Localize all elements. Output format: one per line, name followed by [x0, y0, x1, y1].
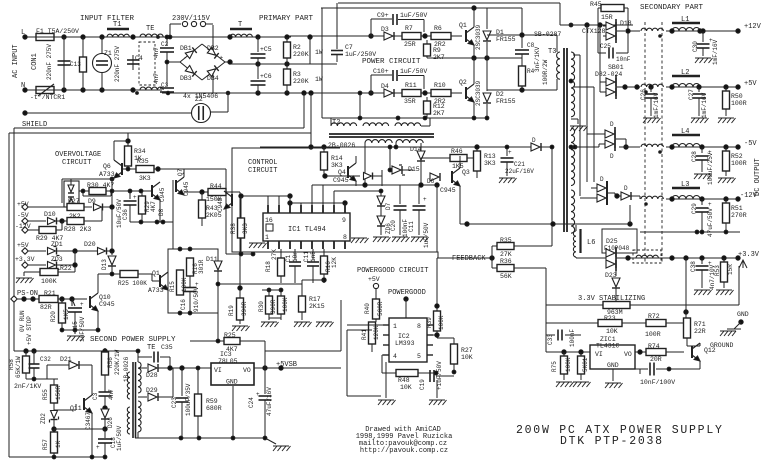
- terminal +5V b: [22, 248, 28, 254]
- svg-text:C10+: C10+: [373, 68, 389, 75]
- wire pg pin1: [347, 324, 383, 326]
- svg-text:R27: R27: [461, 347, 473, 354]
- diode DB4: [202, 62, 225, 80]
- svg-text:D23: D23: [605, 272, 617, 279]
- label C28 plus: [708, 149, 712, 156]
- svg-text:GND: GND: [737, 311, 749, 318]
- regulator IC3 box: [211, 363, 254, 385]
- ground T3: [570, 119, 588, 131]
- svg-text:1mF/16V: 1mF/16V: [712, 39, 719, 65]
- label C13: [70, 61, 81, 68]
- resistor R10: [431, 90, 451, 97]
- text CONTROL: [248, 159, 277, 167]
- wire pg out: [405, 299, 407, 318]
- resistor R16c: [321, 249, 328, 283]
- diode D29: [138, 393, 173, 401]
- wire power top outer: [338, 2, 560, 4]
- label Q3 type: [440, 187, 456, 194]
- junction y191: [379, 189, 383, 193]
- label Z1 values: [114, 46, 121, 82]
- svg-text:4n7: 4n7: [108, 389, 115, 400]
- label R10 value: [434, 98, 446, 105]
- label Q10 type: [99, 301, 115, 308]
- svg-text:C1: C1: [285, 254, 292, 262]
- label 1B-0026: [123, 356, 130, 382]
- junction CTX: [585, 23, 602, 27]
- svg-text:1mF/16V: 1mF/16V: [701, 92, 708, 118]
- label R27: [68, 198, 80, 205]
- text FEEDBACK: [452, 255, 486, 263]
- wire ps-on row: [17, 298, 39, 300]
- label R29 4K7: [36, 235, 63, 242]
- transistor Q1b: [160, 264, 168, 299]
- svg-text:R15: R15: [169, 281, 176, 292]
- svg-text:R25 100K: R25 100K: [118, 280, 147, 287]
- transistor Q10: [90, 285, 98, 330]
- label C27 value: [701, 92, 708, 118]
- junction c20 top: [388, 145, 392, 149]
- svg-text:25R: 25R: [404, 41, 416, 48]
- label R72: [648, 313, 660, 320]
- ground C11: [411, 237, 429, 242]
- wire tap down: [598, 144, 600, 147]
- svg-text:ZD2: ZD2: [40, 413, 47, 424]
- label Q3: [462, 169, 470, 176]
- svg-text:C16: C16: [180, 299, 187, 310]
- label DB2: [207, 45, 219, 52]
- ground R52: [718, 178, 736, 183]
- wire R35 up: [551, 147, 553, 246]
- svg-text:ZD3: ZD3: [51, 256, 63, 263]
- IC U1 TL494 box: [263, 213, 350, 241]
- resistor R74: [646, 349, 684, 356]
- resistor R22: [24, 269, 75, 276]
- svg-text:C23: C23: [171, 397, 178, 408]
- winding +3.3V: [636, 255, 658, 258]
- resistor R41: [369, 322, 377, 352]
- terminal +5V pg: [373, 283, 378, 288]
- junction fb down: [435, 304, 439, 308]
- junction row2 bottom: [396, 116, 489, 120]
- wire ic bottom: [226, 253, 253, 255]
- diode D9: [84, 204, 112, 211]
- label R41: [361, 329, 368, 340]
- svg-text:Z2: Z2: [195, 96, 203, 103]
- junction R72 out: [684, 310, 688, 325]
- wire bus stub1: [573, 54, 580, 56]
- label D25: [606, 238, 618, 245]
- wire CTX row: [560, 24, 633, 26]
- svg-text:T1: T1: [113, 21, 121, 29]
- svg-text:INPUT FILTER: INPUT FILTER: [80, 15, 135, 23]
- wire shield rail: [25, 112, 192, 114]
- wire R71 v: [685, 258, 687, 318]
- svg-text:100R/2W: 100R/2W: [542, 59, 549, 85]
- text 0V RUN: [19, 310, 26, 332]
- svg-text:C2: C2: [161, 41, 169, 48]
- wire link2 v: [303, 93, 305, 128]
- resistor R15: [177, 270, 184, 295]
- svg-text:22R: 22R: [694, 328, 706, 335]
- label R23 value: [606, 328, 618, 335]
- svg-text:R18: R18: [265, 261, 272, 272]
- capacitor C32: [29, 351, 40, 379]
- label R45 value: [601, 14, 613, 21]
- svg-text:D3: D3: [381, 26, 389, 33]
- label R23: [604, 315, 616, 322]
- pin VI: [595, 351, 603, 358]
- label LM393: [395, 340, 415, 347]
- svg-text:2SC3039: 2SC3039: [475, 80, 482, 106]
- wire q7 up: [183, 169, 185, 177]
- resistor R28: [62, 218, 102, 225]
- svg-text:R57: R57: [42, 439, 49, 450]
- text -12V: [740, 192, 758, 200]
- svg-text:R71: R71: [694, 321, 706, 328]
- label R16b value: [198, 259, 205, 274]
- transistor Q7: [176, 177, 184, 195]
- svg-text:C19: C19: [419, 379, 426, 390]
- label R6: [434, 25, 442, 32]
- resistor R16b: [187, 258, 194, 276]
- resistor R55: [51, 379, 58, 410]
- wire -12V link: [639, 196, 641, 199]
- svg-text:100K: 100K: [41, 278, 57, 285]
- svg-text:10K: 10K: [400, 384, 412, 391]
- junction d11 out: [216, 282, 220, 286]
- svg-text:20R: 20R: [650, 356, 662, 363]
- svg-text:R44: R44: [210, 183, 222, 190]
- label ZD4: [385, 223, 392, 234]
- capacitor C38: [696, 258, 709, 288]
- svg-text:L6: L6: [587, 239, 595, 247]
- label Q2 type: [475, 80, 482, 106]
- svg-text:+5VSB: +5VSB: [276, 361, 297, 369]
- junction sps rail: [179, 436, 267, 440]
- junction q6 emit: [110, 177, 114, 181]
- svg-text:10uF/50V: 10uF/50V: [116, 199, 123, 228]
- svg-text:D26: D26: [107, 417, 114, 428]
- wire bus stub2: [587, 133, 599, 135]
- label D -12V: [600, 176, 604, 183]
- wire r31 bot: [269, 317, 281, 319]
- wire y224: [460, 223, 630, 225]
- label C20: [390, 220, 397, 231]
- text GND: [737, 311, 749, 318]
- wire q11 base: [54, 409, 76, 411]
- svg-text:GND: GND: [226, 379, 238, 386]
- svg-text:12K: 12K: [331, 257, 338, 268]
- wire q11 base2: [75, 404, 77, 410]
- wire ic3 gnd: [232, 386, 234, 438]
- label D18: [620, 20, 632, 27]
- transistor Q4: [348, 156, 356, 186]
- label C36 plus: [133, 194, 137, 201]
- wire r58 bottom: [26, 378, 58, 380]
- wire D to R35up: [541, 146, 552, 148]
- label R52 value: [731, 160, 747, 167]
- svg-text:390R: 390R: [241, 301, 248, 316]
- svg-text:100uF/35V: 100uF/35V: [185, 383, 192, 416]
- label Q8 type: [217, 197, 224, 212]
- svg-text:C27: C27: [688, 89, 695, 100]
- svg-text:GROUND: GROUND: [710, 342, 734, 349]
- svg-text:R75: R75: [551, 361, 558, 372]
- svg-text:16: 16: [265, 217, 273, 224]
- label R55: [42, 389, 49, 400]
- regulator ZIC1: [590, 345, 635, 369]
- label R2 watt: [315, 49, 323, 56]
- svg-text:AC INPUT: AC INPUT: [12, 44, 20, 78]
- junction T3 taps: [569, 23, 577, 149]
- transformer T3 core: [564, 48, 567, 232]
- IC1 pin risers: [268, 185, 345, 205]
- label R11 value: [404, 98, 416, 105]
- label C21 value: [505, 168, 534, 175]
- wire T2 prim right: [429, 118, 431, 126]
- label R9 value: [433, 54, 445, 61]
- label R38: [230, 223, 237, 234]
- junction vi: [196, 366, 200, 370]
- label C24: [248, 397, 255, 408]
- svg-text:POWERGOOD: POWERGOOD: [388, 289, 426, 297]
- resistor R25b: [190, 313, 341, 368]
- label R27b value: [461, 354, 473, 361]
- label C33: [547, 334, 554, 345]
- wire vo out: [254, 367, 341, 369]
- label R35b value: [139, 175, 151, 182]
- svg-text:910/50V: 910/50V: [193, 286, 200, 312]
- junction cap out: [667, 367, 671, 371]
- junction sps top: [24, 349, 107, 353]
- diode D7: [377, 191, 385, 216]
- svg-text:SB01: SB01: [608, 64, 624, 71]
- wire below ic: [302, 279, 324, 281]
- capacitor C21: [501, 147, 514, 176]
- svg-text:R27: R27: [68, 198, 80, 205]
- svg-text:C11: C11: [303, 251, 310, 262]
- ground C30: [695, 58, 713, 63]
- label TE: [146, 25, 154, 33]
- junction 5vsb rail: [168, 366, 184, 370]
- bridge node left: [167, 61, 180, 63]
- svg-text:22uF/16V: 22uF/16V: [505, 168, 534, 175]
- text 3.3V STABILIZING: [578, 295, 645, 303]
- resistor R43: [199, 192, 206, 226]
- label ZD3: [51, 256, 63, 263]
- text INPUT FILTER: [80, 15, 135, 23]
- wire long top2: [9, 132, 311, 134]
- wire pg v: [375, 289, 377, 299]
- junctions filter bottom: [62, 88, 135, 92]
- wire row1 feed: [287, 35, 383, 37]
- wire left border2: [13, 128, 15, 351]
- wire stab left v: [545, 268, 547, 352]
- svg-text:Z1: Z1: [104, 50, 112, 57]
- svg-text:1uF/250V: 1uF/250V: [345, 51, 376, 58]
- svg-text:R13: R13: [484, 153, 496, 160]
- label D1 type: [496, 36, 516, 43]
- label D16: [532, 137, 536, 144]
- svg-text:D82-024: D82-024: [595, 71, 622, 78]
- svg-text:1mF/16V: 1mF/16V: [653, 92, 660, 118]
- svg-text:78L05: 78L05: [218, 358, 238, 365]
- svg-text:+: +: [219, 55, 223, 63]
- label R29b: [144, 201, 151, 212]
- svg-text:65K/1W: 65K/1W: [15, 356, 22, 378]
- wire Q6 base: [111, 178, 113, 190]
- terminal -5V a: [22, 218, 28, 224]
- transistor Q11: [84, 395, 92, 457]
- wire T2 prim left: [330, 118, 332, 126]
- text title line1: [516, 424, 724, 437]
- resistor R20: [59, 299, 66, 330]
- svg-text:-5V: -5V: [744, 140, 757, 148]
- transistor Q1: [466, 8, 474, 58]
- svg-text:R6: R6: [434, 25, 442, 32]
- junction c17: [103, 406, 107, 410]
- resistor R53: [721, 258, 728, 288]
- label Q6: [103, 163, 111, 170]
- label D -5V bot: [610, 153, 614, 160]
- junction R7/R6: [423, 34, 427, 38]
- svg-text:C21: C21: [514, 161, 525, 168]
- svg-text:D6: D6: [427, 178, 435, 185]
- svg-text:C24: C24: [248, 397, 255, 408]
- label IC3: [220, 351, 232, 358]
- svg-text:+5V: +5V: [17, 242, 29, 249]
- label DB1: [180, 45, 192, 52]
- svg-text:SECONDARY PART: SECONDARY PART: [640, 4, 704, 12]
- svg-text:D: D: [610, 153, 614, 160]
- label R71: [694, 321, 706, 328]
- junction TE: [136, 36, 160, 95]
- junction R34 top: [126, 139, 130, 143]
- junction r25b: [216, 339, 220, 343]
- choke T1: [107, 29, 129, 37]
- svg-text:D8: D8: [158, 208, 165, 216]
- diode D28: [148, 364, 206, 372]
- svg-text:47uF/16V: 47uF/16V: [266, 387, 273, 416]
- wire +12V rail: [666, 30, 738, 32]
- svg-text:47uF/50V: 47uF/50V: [707, 208, 714, 237]
- diode D26: [101, 408, 109, 429]
- svg-text:R59: R59: [206, 398, 218, 405]
- svg-text:9: 9: [342, 217, 346, 224]
- label C11 value: [423, 222, 430, 248]
- label R38 value: [242, 223, 249, 234]
- text -5V: [744, 140, 757, 148]
- label R17 value: [309, 303, 325, 310]
- svg-text:1uF/50V: 1uF/50V: [400, 68, 427, 75]
- resistor R76: [578, 352, 585, 380]
- label R25 100K: [118, 280, 147, 287]
- svg-text:C29: C29: [691, 203, 698, 214]
- label R32: [282, 297, 289, 312]
- text POWERGOOD CIRCUIT: [357, 267, 428, 275]
- label T2: [332, 119, 340, 127]
- pin 1: [265, 234, 269, 241]
- junction C5/R2 col: [228, 35, 313, 95]
- label Z1: [104, 50, 112, 57]
- label D28: [146, 372, 158, 379]
- label R53 value: [727, 264, 734, 275]
- wire sps top: [14, 350, 138, 352]
- junctions filter top: [62, 35, 135, 39]
- junction R30: [81, 189, 114, 193]
- text +5V a: [17, 201, 29, 208]
- svg-text:8: 8: [343, 234, 347, 241]
- choke L5: [633, 250, 661, 263]
- choke L4: [672, 135, 700, 147]
- junction powergood: [404, 297, 408, 301]
- resistor R35: [492, 243, 552, 250]
- svg-text:R72: R72: [648, 313, 660, 320]
- capacitor C30: [697, 31, 710, 56]
- label C28: [691, 151, 698, 162]
- wire bus2: [586, 25, 588, 182]
- ground R19: [232, 326, 250, 331]
- label C23 value: [185, 383, 192, 416]
- label R28 2K3: [64, 226, 91, 233]
- svg-text:10nF/100V: 10nF/100V: [640, 379, 675, 386]
- label R74: [648, 343, 660, 350]
- ground C26: [643, 118, 661, 123]
- label R74 value: [650, 356, 662, 363]
- ground C24: [265, 438, 291, 451]
- junction 147row: [505, 145, 554, 149]
- label R13: [484, 153, 496, 160]
- text OV CIRCUIT: [62, 159, 91, 167]
- junction sps bottom: [52, 455, 107, 459]
- svg-text:D9: D9: [88, 198, 96, 205]
- capacitor C4: [127, 55, 139, 70]
- label C4: [135, 55, 143, 62]
- label R71 value: [694, 328, 706, 335]
- wire +5v row: [28, 206, 67, 208]
- label 10nF/100V: [640, 379, 675, 386]
- diode D20: [98, 248, 113, 255]
- capacitor C11: [413, 185, 426, 235]
- text +5VSB: [276, 361, 297, 369]
- svg-text:R51: R51: [731, 205, 743, 212]
- svg-text:VI: VI: [214, 367, 222, 374]
- capacitor C3: [160, 62, 174, 93]
- svg-text:100K: 100K: [181, 277, 188, 292]
- svg-text:F1 T5A/250V: F1 T5A/250V: [36, 28, 79, 35]
- svg-text:15R: 15R: [601, 14, 613, 21]
- svg-text:R10: R10: [434, 82, 446, 89]
- resistor R6: [431, 33, 451, 40]
- svg-text:CIRCUIT: CIRCUIT: [248, 167, 277, 175]
- svg-text:D20: D20: [84, 241, 96, 248]
- label D15: [408, 166, 420, 173]
- wire T3 gnd lead: [571, 118, 578, 120]
- svg-text:R55: R55: [42, 389, 49, 400]
- capacitor C35: [138, 351, 170, 368]
- label R4 value: [542, 59, 549, 85]
- svg-text:D15: D15: [408, 166, 420, 173]
- pin 9: [342, 217, 346, 224]
- svg-text:CIRCUIT: CIRCUIT: [62, 159, 91, 167]
- varistor Z1: [93, 37, 112, 90]
- junction SB01 out: [623, 85, 639, 89]
- ground symbol GROUND: [720, 322, 741, 336]
- resistor R32: [278, 288, 285, 320]
- junction q6 base: [126, 167, 130, 171]
- label R52: [731, 153, 743, 160]
- wire q5 bottom: [130, 221, 173, 223]
